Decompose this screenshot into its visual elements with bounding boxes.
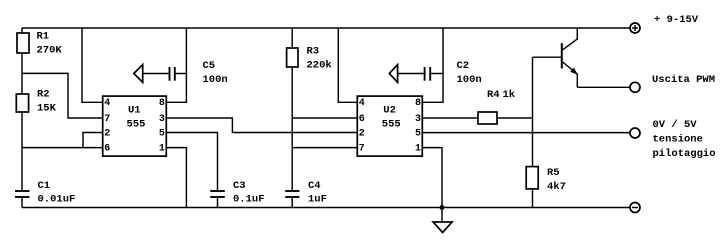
wire: C1 to bottom rail [21,197,23,208]
svg-text:C1: C1 [38,180,51,192]
wire: base node to transistor base [533,56,562,58]
svg-text:1: 1 [415,143,421,154]
svg-text:100n: 100n [203,74,228,86]
svg-text:1k: 1k [503,89,516,101]
transistor Q1 emitter arrowhead [570,68,578,75]
wire: U2 pin 1 to ground node [422,148,442,208]
wire: emitter to Uscita PWM terminal [577,86,630,88]
svg-text:pilotaggio: pilotaggio [653,148,716,160]
svg-text:U2: U2 [383,104,396,116]
svg-text:2: 2 [104,128,110,139]
svg-text:555: 555 [382,119,401,131]
svg-text:0.01uF: 0.01uF [38,194,76,206]
terminal Uscita PWM [630,82,640,92]
wire: R4 to base vertical [497,117,533,119]
svg-text:0.1uF: 0.1uF [233,194,265,206]
resistor R1 [17,33,29,53]
svg-text:4: 4 [104,98,110,109]
wire: U1 pin 1 to bottom rail [166,148,186,208]
svg-text:555: 555 [127,119,146,131]
wire: U1 pin 8 to top rail [166,28,186,102]
terminal 0V/5V control [630,128,640,138]
svg-text:tensione: tensione [653,134,703,146]
svg-text:5: 5 [159,128,165,139]
svg-text:1uF: 1uF [308,194,327,206]
svg-text:C5: C5 [203,60,216,72]
svg-text:100n: 100n [457,74,482,86]
transistor Q1 emitter [562,62,577,88]
wire: R3/C4 node to U2 pin 7 [292,147,357,149]
wire: C3 to bottom rail [217,197,219,208]
capacitor C5 (arrow + plates) [134,65,143,83]
wire: bottom 0V rail [22,207,630,209]
wire: R3/C4 node to U2 pin 6 [292,117,357,119]
wire: R5 to bottom rail [532,189,534,208]
svg-text:6: 6 [104,143,110,154]
svg-text:6: 6 [359,114,365,125]
svg-text:7: 7 [359,143,365,154]
wire: U1 pin 3 to U2 pin 2 [166,118,357,133]
wire: U2 pin 8 to top rail [422,28,443,102]
svg-text:4k7: 4k7 [547,181,566,193]
wire: top rail to U2 pin 4 [338,28,357,102]
svg-text:2: 2 [359,128,365,139]
svg-text:R2: R2 [37,88,50,100]
svg-text:C4: C4 [308,180,321,192]
wire: U1 pin 6 to left rail [22,147,103,149]
op-amp/timer U1 555 body [103,96,167,156]
wire: R2 to C1 [21,112,23,191]
wire: R1 to R2 [21,53,23,94]
resistor R3 [287,48,298,67]
svg-text:8: 8 [415,98,421,109]
svg-text:270K: 270K [37,45,63,57]
svg-text:3: 3 [415,114,421,125]
svg-text:+ 9-15V: + 9-15V [654,14,699,26]
wire: C4 to bottom rail [291,197,293,208]
resistor R5 [526,167,538,189]
capacitor C3 [210,190,225,192]
svg-text:1: 1 [159,143,165,154]
wire: U2 pin 3 to R4 [422,117,478,119]
transistor Q1 collector [562,28,577,50]
wire: R3 to C4 vertical [291,67,293,191]
svg-text:0V / 5V: 0V / 5V [653,119,698,131]
svg-text:8: 8 [159,98,165,109]
ground [441,208,443,223]
svg-text:C2: C2 [457,60,470,72]
svg-text:3: 3 [159,114,165,125]
svg-text:R5: R5 [547,167,560,179]
svg-text:Uscita PWM: Uscita PWM [652,74,715,86]
svg-text:C3: C3 [233,180,246,192]
wire: top supply rail [22,27,630,29]
transistor Q1 base bar [561,43,563,68]
svg-text:U1: U1 [128,104,141,116]
terminal 0V (minus) [630,203,640,213]
svg-text:R1: R1 [37,31,50,43]
wire: top rail to R3 [291,28,293,48]
capacitor C2 (arrow + plates) [389,65,397,83]
svg-text:R4: R4 [487,89,500,101]
wire: U1 pin 2 bracket to pin 6 wire [83,133,103,148]
svg-text:4: 4 [359,98,365,109]
svg-text:7: 7 [104,114,110,125]
wire: top rail to U1 pin 4 [82,28,103,102]
svg-text:R3: R3 [307,45,320,57]
svg-text:15K: 15K [37,102,57,114]
wire: U2 pin 5 to control terminal [422,132,630,134]
terminal + 9-15V [630,23,640,33]
wire: rail tap to U1 pin 7 [22,73,103,118]
svg-text:5: 5 [415,128,421,139]
capacitor C4 [285,190,299,192]
wire: U1 pin 5 to C3 [166,133,217,192]
resistor R4 [478,112,497,124]
wire: left rail top (rail to R1) [21,28,23,33]
op-amp/timer U2 555 body [357,96,422,156]
capacitor C1 [15,190,30,192]
resistor R2 [16,94,28,112]
junction dot on bottom rail [440,205,445,210]
wire: base node vertical (R4/R5/base) [532,57,534,166]
svg-text:220k: 220k [307,59,332,71]
